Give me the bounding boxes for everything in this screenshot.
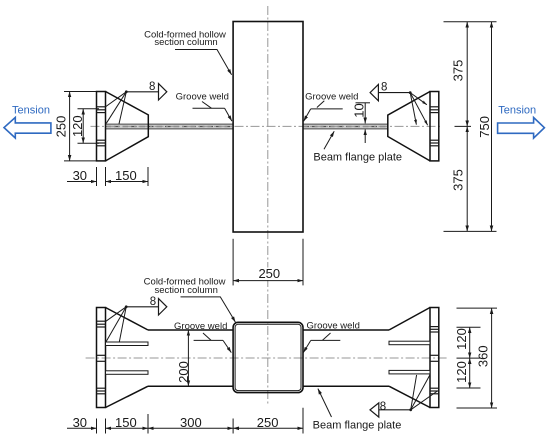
svg-text:120: 120	[454, 361, 469, 383]
svg-text:150: 150	[115, 415, 137, 430]
svg-text:250: 250	[258, 266, 280, 281]
horizontal centerline (top view)	[91, 125, 442, 127]
label: Cold-formed hollow section column (bottom view)	[144, 276, 236, 322]
dimension 250 left (top view)	[53, 92, 96, 161]
svg-text:750: 750	[477, 116, 492, 138]
svg-text:30: 30	[73, 168, 87, 183]
svg-text:200: 200	[176, 361, 191, 383]
square hollow section inner (bottom view)	[235, 324, 301, 390]
right taper plate (top view)	[388, 92, 430, 161]
left end plate (top view)	[97, 92, 106, 161]
svg-text:360: 360	[476, 345, 491, 367]
right end plate (bottom view)	[430, 308, 439, 408]
svg-text:Beam flange plate: Beam flange plate	[313, 151, 402, 163]
dimension 10 (top view)	[351, 103, 370, 143]
beam flange plate edges left (bottom view)	[148, 329, 233, 331]
svg-text:Groove weld: Groove weld	[174, 321, 227, 332]
beam flange plate strip right (top view)	[304, 124, 388, 129]
svg-text:section column: section column	[154, 37, 217, 48]
svg-text:375: 375	[451, 60, 466, 82]
weld symbol 8 right (bottom view)	[370, 375, 437, 417]
left end plate (bottom view)	[97, 308, 106, 408]
left end plate hatches (bottom view)	[97, 321, 106, 394]
label: Beam flange plate (bottom view)	[313, 389, 402, 432]
right end plate (top view)	[430, 92, 439, 161]
svg-text:Beam flange plate: Beam flange plate	[313, 419, 402, 431]
dimension 30 / 150 (top view)	[67, 167, 148, 186]
svg-text:10: 10	[351, 103, 366, 117]
weld symbol 8 left (bottom view)	[106, 296, 167, 342]
dimension row 30 / 150 / 300 / 250 (bottom view)	[67, 408, 303, 434]
dimension 375 top right (top view)	[444, 22, 497, 127]
label: Groove weld left (bottom view)	[174, 321, 231, 353]
svg-text:150: 150	[115, 168, 137, 183]
right stiffener bar upper (bottom view)	[389, 341, 430, 345]
svg-text:Groove weld: Groove weld	[307, 320, 360, 331]
svg-text:Tension: Tension	[498, 104, 536, 116]
right end plate hatch lower (top view)	[430, 140, 439, 146]
label: Beam flange plate (top view)	[313, 131, 402, 163]
dimension 120 left (top view)	[70, 109, 99, 143]
vertical centerline (both views)	[267, 6, 269, 404]
right stiffener bar lower (bottom view)	[389, 370, 430, 374]
dimension 750 (top view)	[477, 22, 492, 232]
svg-text:8: 8	[381, 82, 387, 94]
left end plate hatch upper (top view)	[97, 107, 106, 113]
svg-text:30: 30	[73, 415, 87, 430]
svg-text:375: 375	[451, 169, 466, 191]
left taper plate (top view)	[106, 92, 149, 161]
svg-text:300: 300	[180, 415, 202, 430]
left stiffener bar upper (bottom view)	[106, 342, 149, 346]
Tension arrow left	[4, 117, 51, 138]
svg-text:Groove weld: Groove weld	[305, 91, 358, 102]
beam flange plate strip left (top view)	[106, 124, 233, 129]
svg-text:8: 8	[380, 401, 386, 413]
svg-text:250: 250	[257, 415, 279, 430]
left taper flare (bottom view)	[106, 308, 149, 331]
horizontal centerline (bottom view)	[86, 357, 448, 359]
right taper flare (bottom view)	[389, 308, 430, 331]
left end plate hatch lower (top view)	[97, 140, 106, 146]
right end plate hatch upper (top view)	[430, 107, 439, 113]
dimension 120 / 120 (bottom view)	[454, 327, 481, 388]
label: Cold-formed hollow section column (top view)	[144, 29, 232, 75]
svg-text:8: 8	[150, 296, 156, 308]
svg-text:Groove weld: Groove weld	[176, 92, 229, 103]
svg-text:section column: section column	[155, 285, 218, 296]
label: Groove weld left (top view)	[176, 92, 232, 122]
dimension 250 column width (between views)	[233, 239, 303, 286]
label: Groove weld right (bottom view)	[303, 320, 360, 352]
svg-text:120: 120	[70, 115, 85, 137]
column (top view)	[233, 22, 303, 233]
dimension 375 bottom right (top view)	[444, 126, 497, 231]
label: Groove weld right (top view)	[304, 91, 359, 121]
dimension 360 (bottom view)	[457, 308, 498, 408]
dimension 200 (bottom view)	[176, 330, 191, 386]
svg-text:8: 8	[149, 81, 155, 93]
left stiffener bar lower (bottom view)	[106, 371, 149, 375]
Tension arrow right	[498, 118, 545, 139]
beam flange plate edges right (bottom view)	[303, 329, 389, 331]
svg-text:Tension: Tension	[12, 104, 50, 116]
weld symbol 8 left (top view)	[105, 81, 167, 124]
square hollow section outer (bottom view)	[233, 322, 303, 392]
right end plate hatches (bottom view)	[430, 327, 439, 394]
weld symbol 8 right (top view)	[370, 82, 428, 126]
svg-text:120: 120	[454, 328, 469, 350]
svg-text:250: 250	[53, 116, 68, 138]
